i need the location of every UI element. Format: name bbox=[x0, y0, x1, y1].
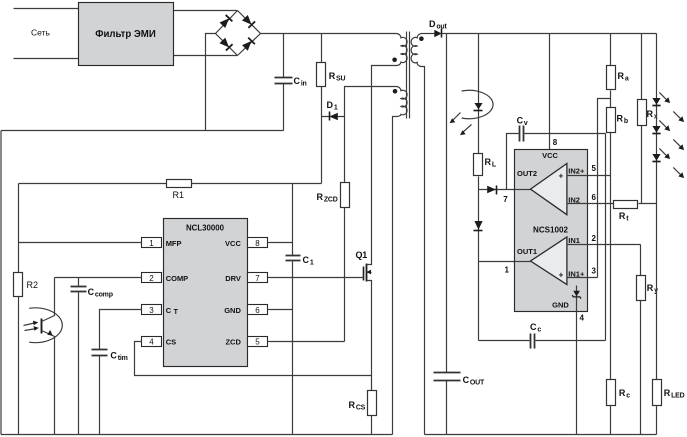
resistor R1 and row bbox=[19, 180, 322, 201]
LED D2 bbox=[652, 92, 684, 122]
resistor Rc bbox=[607, 380, 631, 435]
capacitor C1 on VCC line bbox=[286, 184, 314, 435]
svg-text:OUT2: OUT2 bbox=[517, 169, 537, 178]
svg-text:VCC: VCC bbox=[542, 151, 558, 160]
svg-text:4: 4 bbox=[580, 314, 585, 323]
resistor R2 bbox=[14, 273, 39, 297]
svg-text:ZCD: ZCD bbox=[225, 337, 241, 346]
bridge diode top-left bbox=[219, 15, 232, 28]
capacitor Cin bbox=[275, 34, 307, 131]
wire aux bottom return bbox=[393, 117, 397, 435]
wire primary bottom to Q1 drain bbox=[372, 66, 397, 262]
resistor RLED bbox=[653, 380, 685, 435]
capacitor Cv bbox=[507, 116, 606, 190]
IC NCS1002 bbox=[515, 150, 588, 312]
capacitor COUT bbox=[434, 34, 486, 435]
wire pin2 IN1 row bbox=[567, 244, 641, 246]
wire mains input bottom bbox=[14, 58, 79, 60]
wire bottom rail primary side bbox=[1, 434, 393, 436]
wire pin5 IN2+ row bbox=[567, 175, 611, 177]
pin 6 box bbox=[248, 305, 268, 315]
zener reference at GND bbox=[572, 286, 581, 312]
resistor RSU bbox=[317, 34, 346, 117]
svg-text:3: 3 bbox=[149, 306, 154, 315]
wire output rail bbox=[442, 33, 657, 35]
wire pin5 ZCD row bbox=[268, 341, 345, 343]
svg-text:R1: R1 bbox=[173, 190, 185, 200]
resistor Ra bbox=[607, 34, 629, 108]
wire pin4 GND down bbox=[576, 312, 578, 435]
svg-text:5: 5 bbox=[255, 337, 260, 346]
capacitor Cc bbox=[479, 322, 606, 349]
svg-text:8: 8 bbox=[255, 239, 260, 248]
svg-text:GND: GND bbox=[224, 306, 241, 315]
svg-text:3: 3 bbox=[592, 267, 597, 276]
wire OUT2 inside box bbox=[515, 189, 531, 191]
pin 5 box bbox=[248, 337, 268, 347]
resistor RL bbox=[474, 154, 497, 190]
resistor Rx bbox=[638, 34, 658, 204]
svg-text:R2: R2 bbox=[27, 280, 39, 290]
wire bottom rail secondary side bbox=[425, 434, 657, 436]
diode vertical below RL bbox=[474, 190, 483, 341]
svg-text:COMP: COMP bbox=[166, 274, 189, 283]
svg-text:IN1: IN1 bbox=[568, 236, 580, 245]
bridge diode bottom-left bbox=[219, 37, 232, 50]
wire pin6 GND to C1 line bbox=[268, 309, 293, 311]
wire pin6 IN2 row bbox=[567, 203, 614, 205]
svg-text:GND: GND bbox=[552, 301, 569, 310]
optocoupler LED bbox=[450, 34, 493, 154]
bridge rectifier frame bbox=[216, 11, 261, 56]
transformer secondary dot bbox=[419, 36, 424, 41]
EMI filter block bbox=[79, 3, 174, 66]
wire VCC drop to pin8 bbox=[549, 34, 551, 150]
svg-text:NCL30000: NCL30000 bbox=[186, 223, 224, 233]
svg-text:1: 1 bbox=[505, 266, 510, 275]
IC NCL30000 bbox=[164, 219, 248, 367]
wire left rail bbox=[18, 184, 20, 435]
svg-text:2: 2 bbox=[592, 234, 597, 243]
svg-text:NCS1002: NCS1002 bbox=[533, 225, 568, 235]
resistor Ry bbox=[637, 245, 659, 435]
transformer T1 primary winding bbox=[397, 34, 408, 66]
LED D4 bbox=[652, 148, 684, 178]
pin 1 box bbox=[142, 238, 162, 248]
wire aux top to D1 anode bbox=[345, 87, 397, 117]
svg-text:4: 4 bbox=[149, 337, 154, 346]
wire divider tap to pin5 bbox=[598, 99, 611, 278]
svg-text:CS: CS bbox=[166, 337, 176, 346]
svg-text:7: 7 bbox=[255, 274, 260, 283]
wire secondary bottom return bbox=[422, 67, 425, 435]
svg-text:IN2+: IN2+ bbox=[568, 167, 585, 176]
wire pin8 VCC to C1 line bbox=[268, 242, 293, 244]
svg-text:+: + bbox=[559, 271, 564, 280]
diode Dout bbox=[429, 19, 447, 38]
transformer secondary winding bbox=[411, 34, 422, 67]
svg-text:VCC: VCC bbox=[225, 239, 241, 248]
wire CS path bbox=[135, 342, 372, 376]
wire left outer vertical bbox=[0, 131, 2, 435]
capacitor Ctim bbox=[92, 350, 128, 435]
wire DRV to Q1 gate bbox=[268, 277, 364, 279]
wire bridge left corner to DC minus bbox=[206, 34, 216, 131]
LED string line bbox=[656, 34, 658, 380]
svg-text:1: 1 bbox=[149, 239, 154, 248]
svg-text:6: 6 bbox=[255, 306, 260, 315]
wire pin1 MFP row bbox=[19, 242, 142, 244]
wire secondary top to Dout bbox=[422, 33, 435, 35]
resistor Rt bbox=[614, 201, 657, 223]
wire RSU line down to R1 row bbox=[321, 117, 323, 184]
transformer aux winding bbox=[397, 87, 408, 117]
pin 4 box bbox=[142, 337, 162, 347]
transformer core bbox=[407, 32, 410, 119]
wire DC minus row bbox=[1, 130, 284, 132]
svg-text:5: 5 bbox=[592, 164, 597, 173]
svg-text:7: 7 bbox=[503, 195, 508, 204]
svg-text:6: 6 bbox=[592, 193, 597, 202]
resistor Rb bbox=[607, 108, 628, 380]
pin 3 box bbox=[142, 305, 162, 315]
diode to OUT2 bbox=[479, 186, 515, 205]
transformer primary dot bbox=[392, 58, 397, 63]
transformer aux dot bbox=[393, 89, 398, 94]
pin 7 box bbox=[248, 273, 268, 283]
svg-text:MFP: MFP bbox=[166, 239, 182, 248]
wire OUT1 row bbox=[479, 261, 515, 263]
wire pin3 IN1+ row bbox=[567, 277, 598, 279]
svg-text:+: + bbox=[559, 172, 564, 181]
svg-text:2: 2 bbox=[149, 274, 154, 283]
svg-text:OUT1: OUT1 bbox=[517, 247, 537, 256]
wire CT row bbox=[100, 310, 142, 350]
transistor Q1 bbox=[356, 250, 372, 391]
wire top DC plus rail bbox=[261, 33, 397, 35]
svg-text:Q1: Q1 bbox=[356, 250, 368, 260]
bridge diode bottom-right bbox=[241, 38, 254, 51]
svg-text:Сеть: Сеть bbox=[31, 28, 50, 38]
pin 2 box bbox=[142, 273, 162, 283]
wire OUT1 inside box bbox=[515, 261, 531, 263]
wire filter to bridge bottom bbox=[174, 55, 238, 57]
resistor RCS bbox=[349, 391, 377, 435]
diode D1 bbox=[322, 100, 345, 121]
resistor RZCD bbox=[317, 117, 350, 342]
svg-text:Фильтр ЭМИ: Фильтр ЭМИ bbox=[95, 28, 156, 40]
svg-text:8: 8 bbox=[553, 138, 558, 147]
capacitor Ccomp bbox=[71, 278, 113, 435]
wire mains input top bbox=[14, 8, 79, 10]
bridge diode top-right bbox=[242, 14, 255, 27]
op-amp U2 top bbox=[517, 164, 585, 215]
svg-text:DRV: DRV bbox=[225, 274, 241, 283]
wire filter to bridge top bbox=[174, 10, 238, 12]
LED D3 bbox=[652, 120, 684, 150]
pin 8 box bbox=[248, 238, 268, 248]
op-amp U1 bottom bbox=[517, 236, 585, 285]
wire COMP row bbox=[55, 277, 142, 279]
optocoupler transistor bbox=[24, 278, 63, 435]
